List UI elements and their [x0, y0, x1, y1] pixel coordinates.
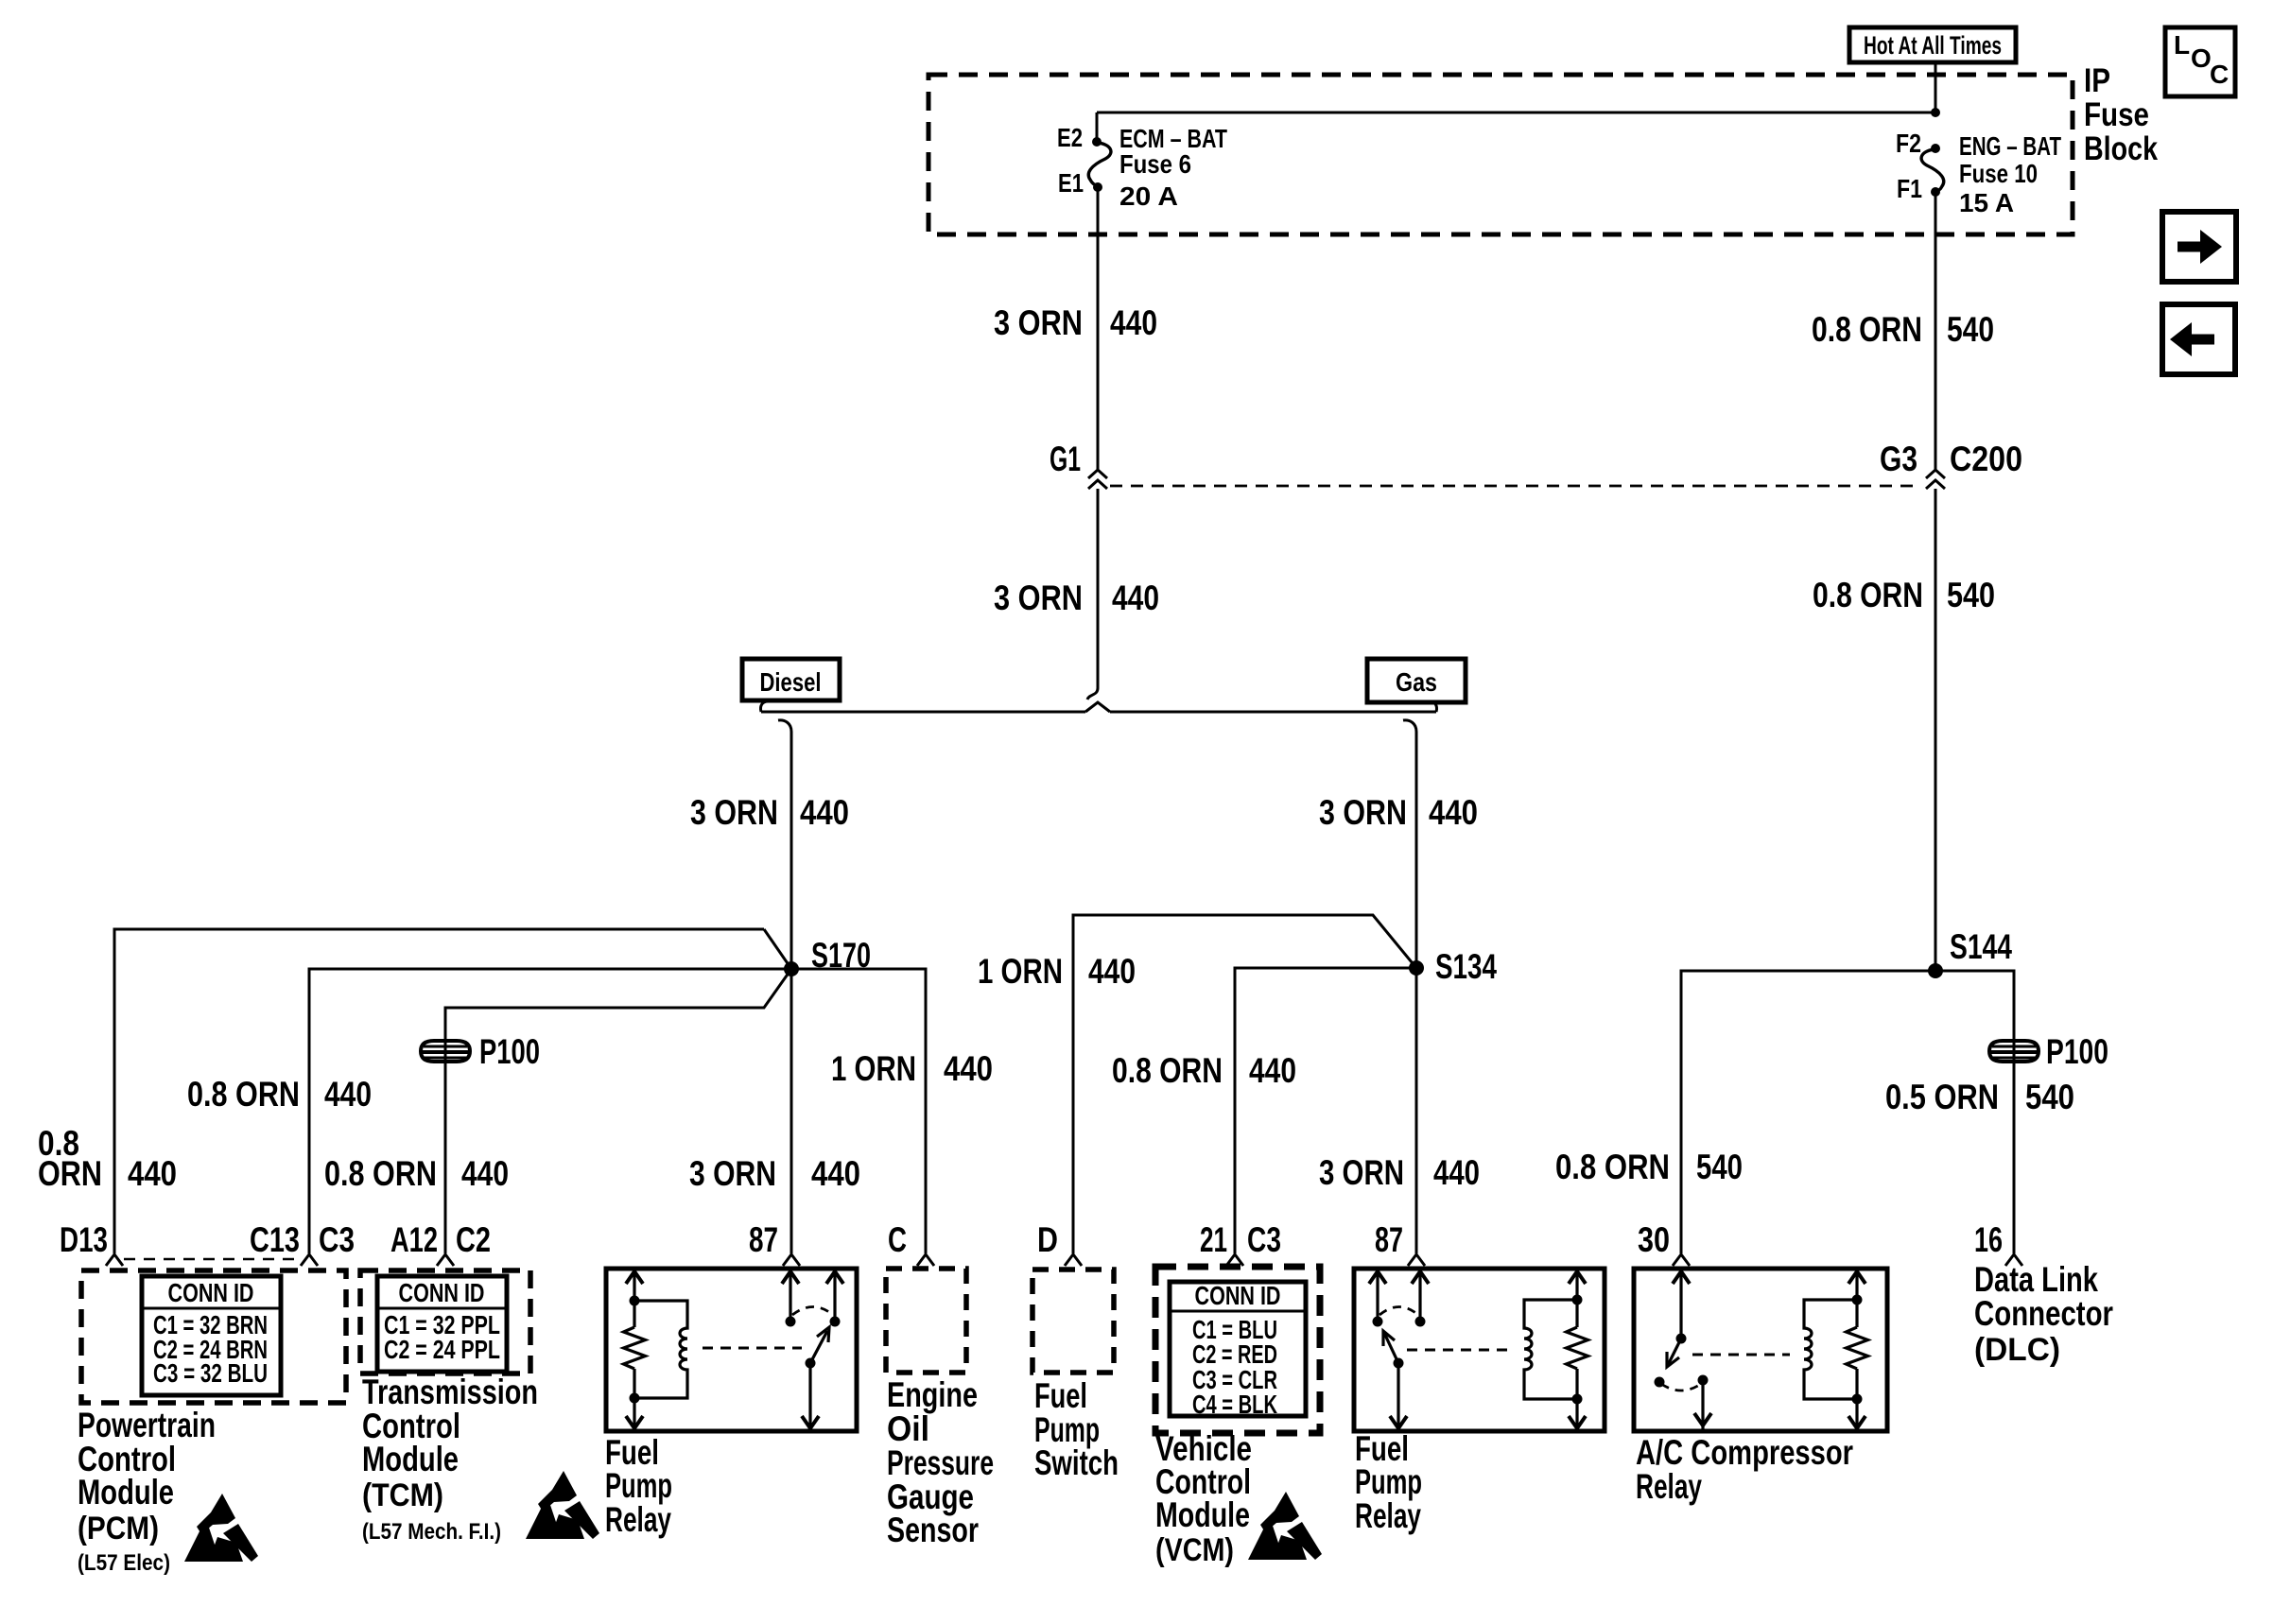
svg-text:3 ORN: 3 ORN: [994, 303, 1083, 342]
svg-text:P100: P100: [479, 1032, 540, 1071]
label 3 ORN 440 (mid): [994, 579, 1159, 617]
node S170 splice: [784, 936, 871, 976]
svg-text:C3: C3: [1247, 1220, 1281, 1259]
terminal 87 (fuel pump relay 2): [1375, 1220, 1425, 1266]
svg-text:ORN: ORN: [38, 1154, 102, 1193]
svg-text:(L57 Mech. F.I.): (L57 Mech. F.I.): [362, 1519, 501, 1545]
wire S170 to TCM A12/C2: [445, 969, 791, 1253]
engine oil pressure sensor dashed box: [886, 1269, 966, 1373]
svg-text:E1: E1: [1058, 168, 1084, 198]
svg-text:Switch: Switch: [1034, 1443, 1119, 1482]
svg-text:0.5 ORN: 0.5 ORN: [1885, 1078, 1999, 1116]
svg-text:540: 540: [2025, 1078, 2074, 1116]
relay 1 switch contact 30: [826, 1270, 843, 1327]
wire S134 to fuel pump relay 2 87: [1415, 968, 1418, 1253]
svg-text:CONN ID: CONN ID: [399, 1278, 485, 1307]
relay 1 switch arm: [802, 1327, 829, 1429]
PCM dashed box: [81, 1270, 346, 1403]
svg-text:Sensor: Sensor: [887, 1511, 979, 1549]
label 1 ORN 440 (switch D wire): [978, 952, 1136, 991]
node: battery feed junction: [1931, 108, 1940, 117]
svg-text:20 A: 20 A: [1119, 181, 1178, 211]
relay 1 switch throw dashed arc: [792, 1307, 833, 1316]
svg-text:440: 440: [944, 1049, 993, 1088]
fuel bus wire: [760, 701, 1436, 712]
Hot At All Times tag: [1849, 27, 2016, 62]
svg-text:(VCM): (VCM): [1155, 1532, 1234, 1568]
label 3 ORN 440 (Diesel branch): [690, 793, 849, 832]
IP Fuse Block label: [2084, 62, 2158, 167]
terminal C (oil pressure sensor): [888, 1220, 934, 1266]
svg-text:Module: Module: [362, 1440, 459, 1478]
svg-text:CONN ID: CONN ID: [1195, 1281, 1281, 1310]
wire S170 to PCM C13/C3: [309, 969, 791, 1253]
svg-text:0.8 ORN: 0.8 ORN: [1112, 1051, 1223, 1090]
terminal 87 (fuel pump relay): [749, 1220, 800, 1266]
connector break G3 / C200: [1880, 440, 2022, 489]
svg-text:0.8 ORN: 0.8 ORN: [187, 1075, 300, 1114]
svg-text:3 ORN: 3 ORN: [1319, 793, 1407, 832]
svg-text:16: 16: [1974, 1220, 2003, 1259]
svg-text:440: 440: [128, 1154, 177, 1193]
svg-text:S144: S144: [1950, 927, 2012, 966]
IP Fuse Block dashed box: [928, 75, 2073, 234]
wire S144 to A/C relay 30: [1681, 971, 1935, 1253]
svg-text:C: C: [2210, 60, 2229, 89]
svg-text:Pressure: Pressure: [887, 1443, 994, 1482]
A/C relay armature dashed link: [1692, 1354, 1790, 1356]
TCM label: [362, 1373, 538, 1545]
svg-text:Fuse: Fuse: [2084, 96, 2149, 133]
svg-text:440: 440: [1088, 952, 1136, 991]
VCM CONN ID table: [1170, 1281, 1306, 1419]
relay 2 switch common 87: [1412, 1270, 1429, 1327]
wire: feed bus to fuse E: [1097, 112, 1935, 140]
svg-text:Data Link: Data Link: [1974, 1260, 2098, 1299]
svg-text:Fuse 6: Fuse 6: [1119, 149, 1191, 179]
grommet P100 (right): [1989, 1041, 2039, 1062]
svg-text:Relay: Relay: [1636, 1467, 1702, 1506]
svg-text:Relay: Relay: [605, 1500, 671, 1539]
svg-text:Connector: Connector: [1974, 1294, 2113, 1333]
svg-text:L: L: [2174, 30, 2190, 60]
label 3 ORN 440 (relay2 87 wire): [1319, 1153, 1480, 1192]
label 0.5 ORN 540 (DLC wire): [1885, 1078, 2074, 1116]
svg-text:3 ORN: 3 ORN: [994, 579, 1083, 617]
fuse ENG-BAT Fuse 10 15A: [1896, 129, 2061, 217]
label 1 ORN 440 (sensor C wire): [831, 1049, 993, 1088]
svg-text:ENG – BAT: ENG – BAT: [1959, 131, 2061, 161]
A/C relay coil feed with arrows: [1848, 1270, 1865, 1429]
wire S134 to fuel pump switch D: [1073, 915, 1416, 1253]
fuse ECM-BAT Fuse 6 20A: [1057, 123, 1227, 211]
wire 540 G3 to S144: [1935, 489, 1937, 971]
svg-text:CONN ID: CONN ID: [168, 1278, 254, 1307]
label 0.8 ORN 440 (C13 wire): [187, 1075, 372, 1114]
svg-text:O: O: [2191, 43, 2212, 73]
A/C relay switch contacts and output: [1655, 1375, 1712, 1430]
ESD symbol (VCM): [1248, 1492, 1322, 1560]
wire S144 to DLC 16: [1935, 971, 2014, 1253]
terminal 21/C3 (VCM): [1200, 1220, 1281, 1266]
A/C compressor relay box: [1634, 1269, 1887, 1431]
svg-text:(L57 Elec): (L57 Elec): [78, 1550, 170, 1576]
A/C relay coil: [1804, 1300, 1857, 1399]
svg-text:D13: D13: [60, 1220, 108, 1259]
terminal D (fuel pump switch): [1037, 1220, 1082, 1266]
svg-text:A/C Compressor: A/C Compressor: [1636, 1433, 1853, 1472]
svg-text:Transmission: Transmission: [362, 1373, 538, 1411]
Diesel tag box: [742, 659, 840, 700]
svg-text:3 ORN: 3 ORN: [689, 1154, 776, 1193]
legend left-arrow box: [2162, 304, 2235, 374]
dashed net line G1 to G3: [1110, 485, 1921, 488]
relay 2 coil: [1524, 1300, 1577, 1399]
wire: Gas branch to S134: [1403, 720, 1416, 968]
TCM dashed box: [360, 1270, 530, 1373]
label 0.8 ORN 440 (A12 wire): [324, 1154, 509, 1193]
A/C relay switch common 30: [1673, 1270, 1690, 1344]
wire: Diesel branch to S170: [778, 720, 791, 969]
svg-text:0.8 ORN: 0.8 ORN: [1812, 310, 1922, 349]
label 3 ORN 440 (relay 87 wire): [689, 1154, 860, 1193]
label 0.8 ORN 440 (D13 wire): [38, 1124, 177, 1193]
PCM label: [78, 1406, 216, 1576]
svg-text:C2: C2: [456, 1220, 491, 1259]
A/C relay resistor: [1847, 1327, 1868, 1369]
svg-text:540: 540: [1947, 576, 1995, 614]
svg-text:440: 440: [1433, 1153, 1480, 1192]
label 3 ORN 440 (upper): [994, 303, 1157, 342]
svg-text:0.8 ORN: 0.8 ORN: [1555, 1148, 1670, 1186]
svg-text:C3: C3: [319, 1220, 355, 1259]
wire 440 G1 to fuel bus: [1087, 489, 1098, 700]
legend LOC box: [2165, 27, 2235, 96]
relay 1 resistor: [624, 1327, 646, 1369]
connector break G1: [1050, 440, 1107, 489]
svg-text:C2 = 24 PPL: C2 = 24 PPL: [384, 1335, 500, 1364]
svg-text:F2: F2: [1896, 129, 1921, 158]
svg-text:440: 440: [324, 1075, 372, 1114]
wire S170 to oil pressure sensor C: [791, 969, 926, 1253]
svg-text:Engine: Engine: [887, 1375, 978, 1414]
relay 1 armature dashed link: [703, 1347, 802, 1350]
terminal D13: [60, 1220, 123, 1266]
svg-text:P100: P100: [2046, 1032, 2108, 1071]
svg-text:C: C: [888, 1220, 907, 1259]
svg-text:C13: C13: [250, 1220, 300, 1259]
svg-text:Oil: Oil: [887, 1409, 929, 1448]
svg-text:G3: G3: [1880, 440, 1917, 478]
svg-text:Powertrain: Powertrain: [78, 1406, 216, 1444]
svg-text:Module: Module: [1155, 1495, 1250, 1534]
svg-text:540: 540: [1696, 1148, 1743, 1186]
wire S134 to VCM 21: [1235, 968, 1416, 1253]
svg-text:Fuse 10: Fuse 10: [1959, 159, 2038, 188]
svg-text:440: 440: [461, 1154, 509, 1193]
relay 1 switch common 87: [782, 1270, 799, 1327]
VCM label: [1155, 1429, 1252, 1568]
wire: battery feed from tag into fuse block: [1935, 62, 1937, 112]
svg-text:0.8 ORN: 0.8 ORN: [324, 1154, 437, 1193]
relay 2 armature dashed link: [1407, 1349, 1510, 1352]
Gas tag box: [1367, 659, 1466, 702]
svg-text:D: D: [1037, 1220, 1058, 1259]
svg-text:Hot At All Times: Hot At All Times: [1864, 31, 2002, 60]
connector face dashed line D13-C13: [124, 1258, 299, 1261]
label 0.8 ORN 540 (mid): [1813, 576, 1995, 614]
wire 440 fuse E1 to G1: [1097, 187, 1100, 470]
terminal 16 (DLC): [1974, 1220, 2022, 1266]
VCM dashed box: [1155, 1267, 1320, 1433]
relay 2 coil feed with arrows: [1569, 1270, 1586, 1429]
svg-text:0.8 ORN: 0.8 ORN: [1813, 576, 1923, 614]
svg-text:C200: C200: [1950, 440, 2022, 478]
relay 2 switch contact: [1369, 1270, 1386, 1327]
svg-text:15 A: 15 A: [1959, 188, 2014, 217]
svg-text:1 ORN: 1 ORN: [831, 1049, 916, 1088]
wire S170 to fuel pump relay 87: [790, 969, 793, 1253]
node S144 splice: [1928, 927, 2012, 978]
fuel pump relay label: [605, 1433, 672, 1539]
svg-text:Pump: Pump: [605, 1466, 672, 1505]
svg-text:1 ORN: 1 ORN: [978, 952, 1063, 991]
relay 2 switch throw dashed arc: [1379, 1307, 1418, 1316]
svg-text:440: 440: [1429, 793, 1478, 832]
relay 2 switch arm: [1383, 1331, 1407, 1429]
svg-text:Gas: Gas: [1396, 667, 1437, 697]
svg-text:30: 30: [1638, 1220, 1670, 1259]
svg-text:Block: Block: [2084, 130, 2158, 167]
svg-text:(PCM): (PCM): [78, 1511, 159, 1546]
label 0.8 ORN 440 (VCM wire): [1112, 1051, 1296, 1090]
fuel pump relay 2 box: [1354, 1269, 1605, 1431]
label 0.8 ORN 540 (A/C 30 wire): [1555, 1148, 1743, 1186]
svg-text:87: 87: [1375, 1220, 1403, 1259]
wire 540 fuse F1 to G3: [1935, 192, 1937, 470]
svg-text:3 ORN: 3 ORN: [1319, 1153, 1404, 1192]
legend right-arrow box: [2162, 212, 2236, 282]
ESD symbol (TCM): [526, 1471, 599, 1539]
svg-text:(DLC): (DLC): [1974, 1332, 2060, 1368]
A/C relay switch arm (open): [1667, 1339, 1681, 1367]
relay 1 coil feed with arrows: [626, 1270, 643, 1429]
svg-text:Module: Module: [78, 1473, 174, 1512]
svg-text:440: 440: [1112, 579, 1159, 617]
svg-text:G1: G1: [1050, 440, 1081, 478]
wire S170 to PCM D13: [114, 929, 764, 1253]
engine oil pressure sensor label: [887, 1375, 994, 1549]
relay 1 coil: [634, 1301, 687, 1398]
svg-text:F1: F1: [1897, 174, 1922, 203]
svg-text:IP: IP: [2084, 62, 2110, 99]
node S134 splice: [1409, 947, 1497, 986]
svg-text:440: 440: [1249, 1051, 1296, 1090]
svg-text:A12: A12: [390, 1220, 438, 1259]
fuel pump relay 2 label: [1355, 1429, 1422, 1535]
ESD symbol (PCM): [184, 1494, 258, 1562]
svg-text:87: 87: [749, 1220, 778, 1259]
svg-text:Pump: Pump: [1355, 1462, 1422, 1501]
relay 2 resistor: [1567, 1327, 1588, 1369]
terminal A12/C2: [390, 1220, 491, 1266]
data link connector label: [1974, 1260, 2113, 1368]
terminal 30 (A/C relay): [1638, 1220, 1690, 1266]
grommet P100 (left): [421, 1041, 470, 1062]
TCM CONN ID table: [377, 1276, 507, 1372]
svg-text:3 ORN: 3 ORN: [690, 793, 778, 832]
svg-text:Diesel: Diesel: [760, 667, 822, 697]
label 3 ORN 440 (Gas branch): [1319, 793, 1478, 832]
terminal C13/C3: [250, 1220, 355, 1266]
svg-text:C4 = BLK: C4 = BLK: [1192, 1390, 1277, 1419]
svg-text:E2: E2: [1057, 123, 1083, 152]
svg-text:21: 21: [1200, 1220, 1227, 1259]
fuel pump switch dashed box: [1032, 1270, 1114, 1373]
svg-text:Relay: Relay: [1355, 1496, 1421, 1535]
svg-text:540: 540: [1947, 310, 1994, 349]
PCM CONN ID table: [142, 1276, 281, 1395]
svg-text:C3 = 32 BLU: C3 = 32 BLU: [153, 1358, 268, 1388]
svg-text:440: 440: [1110, 303, 1157, 342]
svg-text:(TCM): (TCM): [362, 1477, 443, 1513]
A/C compressor relay label: [1636, 1433, 1853, 1506]
fuel pump switch label: [1034, 1376, 1119, 1482]
fuel pump relay box: [606, 1269, 857, 1431]
svg-text:440: 440: [811, 1154, 860, 1193]
label 0.8 ORN 540 (upper): [1812, 310, 1994, 349]
svg-text:Fuel: Fuel: [1034, 1376, 1087, 1415]
svg-text:S134: S134: [1435, 947, 1497, 986]
svg-text:440: 440: [800, 793, 849, 832]
